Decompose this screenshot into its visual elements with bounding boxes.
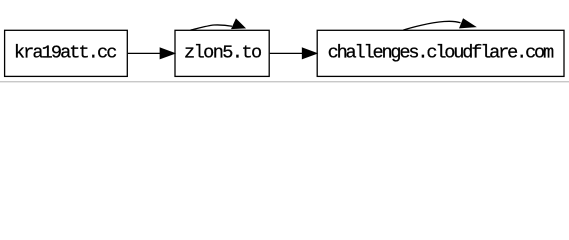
svg-text:challenges.cloudflare.com: challenges.cloudflare.com (328, 43, 555, 64)
svg-text:zlon5.to: zlon5.to (184, 43, 262, 64)
svg-text:kra19att.cc: kra19att.cc (14, 43, 118, 64)
